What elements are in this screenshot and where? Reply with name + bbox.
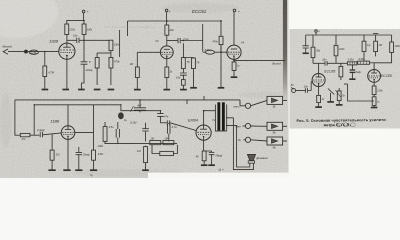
- svg-text:0,5М: 0,5М: [359, 58, 365, 61]
- svg-text:10н: 10н: [322, 58, 327, 62]
- svg-text:50мф: 50мф: [215, 153, 223, 157]
- svg-text:+: +: [318, 29, 320, 33]
- svg-text:25мф: 25мф: [82, 152, 91, 156]
- svg-text:4,7М: 4,7М: [48, 71, 55, 75]
- svg-text:11В8: 11В8: [49, 39, 59, 44]
- svg-text:+: +: [87, 10, 89, 14]
- svg-text:+: +: [169, 10, 171, 14]
- svg-text:10н: 10н: [304, 85, 309, 89]
- svg-text:Выход: Выход: [272, 61, 281, 65]
- svg-text:470к: 470к: [98, 152, 104, 156]
- svg-text:100к: 100к: [114, 42, 120, 46]
- svg-text:тр: тр: [367, 44, 371, 47]
- svg-text:+: +: [238, 10, 240, 14]
- svg-text:О +: О +: [219, 168, 224, 172]
- svg-text:470к: 470к: [114, 59, 120, 63]
- svg-text:Динамик: Динамик: [255, 156, 268, 160]
- svg-text:У2: У2: [155, 39, 159, 43]
- svg-text:100к: 100к: [394, 44, 400, 48]
- svg-text:10н: 10н: [73, 34, 78, 38]
- svg-text:3,3нф: 3,3нф: [37, 128, 45, 132]
- svg-text:11В8: 11В8: [50, 118, 60, 123]
- svg-text:220к: 220к: [68, 27, 75, 31]
- svg-text:ЕСС85: ЕСС85: [381, 74, 392, 78]
- svg-text:10н: 10н: [176, 76, 181, 80]
- svg-text:Мел: Мел: [236, 124, 242, 128]
- svg-text:4,7н: 4,7н: [172, 125, 178, 129]
- svg-text:φ: φ: [89, 60, 91, 63]
- svg-text:0,5М: 0,5М: [348, 59, 354, 62]
- svg-text:220: 220: [168, 28, 174, 32]
- svg-text:ЕЛ84: ЕЛ84: [188, 118, 199, 123]
- svg-text:100к: 100к: [87, 27, 93, 31]
- svg-text:0,1М: 0,1М: [130, 121, 137, 125]
- svg-text:220к: 220к: [338, 47, 345, 51]
- svg-text:47н: 47н: [164, 115, 169, 119]
- svg-text:8мф: 8мф: [355, 70, 361, 74]
- svg-text:2,2н: 2,2н: [182, 37, 189, 41]
- svg-text:0,5М: 0,5М: [205, 48, 212, 52]
- svg-text:100к: 100к: [98, 144, 104, 148]
- svg-text:сети: сети: [233, 105, 240, 108]
- svg-text:22мф: 22мф: [85, 68, 94, 72]
- svg-text:ЕСС85: ЕСС85: [324, 70, 335, 74]
- svg-text:0,1М: 0,1М: [30, 51, 37, 55]
- svg-text:ЕСС81: ЕСС81: [192, 9, 207, 14]
- svg-text:О₂: О₂: [90, 173, 93, 177]
- svg-text:4н7: 4н7: [137, 104, 142, 108]
- svg-text:Мелод.: Мелод.: [2, 44, 12, 48]
- svg-text:4,5н: 4,5н: [109, 126, 114, 129]
- svg-text:У4: У4: [241, 41, 245, 45]
- svg-text:220к: 220к: [376, 88, 383, 92]
- svg-text:Ю: Ю: [291, 83, 294, 87]
- svg-text:У3: У3: [212, 118, 216, 122]
- svg-text:сает чувствание про гол говщ亜м: сает чувствание про гол говщ亜м ра: [104, 25, 155, 29]
- svg-text:470к: 470к: [212, 39, 218, 43]
